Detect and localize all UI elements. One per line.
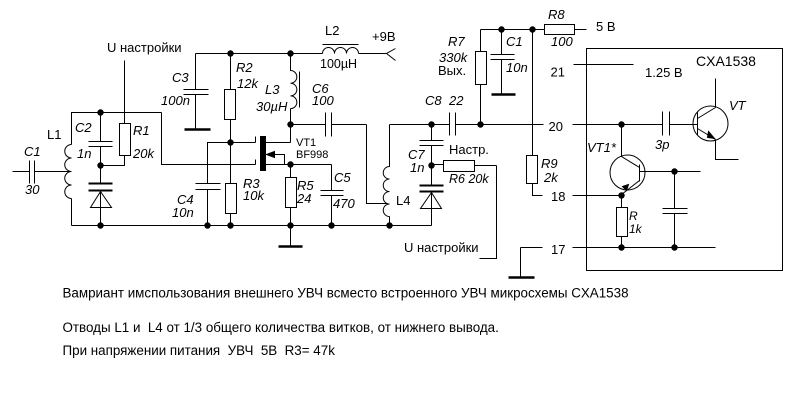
resistor R6 [432, 164, 444, 166]
wire L4 top to C8 [390, 124, 450, 126]
wire node A to VT1 gate2 [162, 113, 256, 165]
svg-text:U настройки: U настройки [107, 40, 182, 55]
VT base bar [697, 113, 699, 136]
svg-text:R7: R7 [448, 34, 465, 49]
capacitor C8 [450, 113, 456, 136]
wire R6 to U tuning lower [480, 166, 497, 259]
svg-text:30: 30 [25, 182, 40, 197]
resistor R1 [120, 124, 131, 156]
VT1* collector wire [640, 171, 701, 173]
IC box CXA1538 [587, 49, 783, 271]
wire L2 to +9V [359, 53, 387, 55]
svg-text:VT1*: VT1* [587, 140, 617, 155]
svg-text:20k: 20k [132, 146, 155, 161]
svg-text:5 В: 5 В [596, 19, 616, 34]
capacitor C5 [321, 165, 344, 226]
resistor R5 [290, 165, 292, 178]
svg-text:30µH: 30µH [256, 99, 288, 114]
svg-text:L4: L4 [396, 193, 410, 208]
varicap VD2 [420, 186, 444, 192]
transistor VT1 gate bars [255, 137, 257, 165]
svg-text:1.25 В: 1.25 В [645, 65, 683, 80]
svg-text:10k: 10k [243, 188, 265, 203]
svg-text:1k: 1k [629, 222, 643, 236]
transistor VT circle [693, 106, 728, 141]
capacitor 3p [663, 112, 670, 136]
capacitor C6 [291, 113, 367, 137]
ground symbol main [290, 226, 292, 247]
svg-text:20: 20 [549, 119, 563, 134]
resistor R9 [527, 156, 538, 184]
svg-text:VT: VT [729, 98, 747, 113]
VT1* base wire [622, 125, 640, 168]
capacitor C2 [89, 113, 113, 166]
svg-text:+9В: +9В [372, 29, 396, 44]
svg-text:1n: 1n [410, 160, 424, 175]
wire C6 to L4 tap [367, 125, 388, 204]
svg-text:3p: 3p [655, 137, 669, 152]
svg-text:VT1: VT1 [296, 137, 316, 149]
svg-text:BF998: BF998 [296, 149, 328, 161]
resistor R internal [621, 196, 623, 208]
svg-text:U настройки: U настройки [404, 240, 479, 255]
svg-text:L1: L1 [47, 127, 61, 142]
ground rail wire [72, 225, 432, 227]
svg-text:L3: L3 [265, 82, 280, 97]
VT emitter wire [698, 129, 716, 140]
svg-text:Вых.: Вых. [438, 63, 466, 78]
svg-text:При напряжении питания УВЧ 5: При напряжении питания УВЧ 5В R3= 47k [63, 343, 336, 358]
svg-text:24: 24 [296, 191, 311, 206]
+9V connector arrow [387, 49, 396, 61]
capacitor C1b [491, 30, 515, 94]
svg-text:C1: C1 [506, 34, 523, 49]
resistor R3 [230, 143, 232, 184]
svg-text:12k: 12k [237, 76, 259, 91]
pin 21 wire [574, 64, 634, 66]
svg-text:22: 22 [448, 93, 464, 108]
capacitor C7 [420, 125, 444, 165]
inductor L2 [323, 48, 359, 54]
resistor R2 [230, 54, 232, 90]
svg-text:C2: C2 [75, 120, 92, 135]
svg-text:18: 18 [551, 189, 565, 204]
ground under C3 [185, 128, 211, 131]
wire L1 bottom to ground rail [71, 199, 73, 226]
inductor L4 [383, 125, 389, 226]
wire R1 bottom to node B [101, 156, 125, 166]
svg-text:470: 470 [333, 196, 355, 211]
svg-text:Отводы L1 и L4 от 1/3 общего: Отводы L1 и L4 от 1/3 общего количества … [63, 320, 499, 335]
svg-text:C1: C1 [24, 144, 41, 159]
wire C1 to L1 tap [35, 171, 72, 173]
svg-text:C8: C8 [425, 93, 442, 108]
capacitor C1 [30, 161, 35, 184]
wire node to R9 [532, 30, 534, 156]
inductor L1 [65, 145, 72, 199]
wire R1 top to U tuning [124, 61, 126, 124]
svg-text:10n: 10n [172, 205, 194, 220]
svg-text:L2: L2 [325, 23, 339, 38]
VT1 drain wire [266, 125, 291, 143]
svg-text:100: 100 [551, 34, 573, 49]
capacitor C3 [184, 54, 209, 129]
VT1 source wire [266, 164, 332, 166]
VT collector wire [698, 79, 716, 119]
svg-text:R2: R2 [236, 60, 253, 75]
svg-text:Вамриант имспользования внешне: Вамриант имспользования внешнего УВЧ всм… [63, 286, 629, 301]
internal capacitor [663, 172, 688, 248]
resistor R8 [545, 25, 575, 35]
svg-text:2k: 2k [543, 170, 559, 185]
wire L1 top to node A [72, 113, 162, 145]
svg-text:R1: R1 [133, 123, 150, 138]
VT1* emitter wire [622, 181, 640, 195]
svg-text:21: 21 [551, 65, 565, 80]
svg-text:R: R [629, 209, 638, 223]
svg-text:CXA1538: CXA1538 [696, 53, 756, 69]
resistor R7 [480, 30, 482, 52]
VT1 substrate arrow [266, 155, 285, 165]
svg-text:1n: 1n [77, 146, 91, 161]
transistor VT1* circle [610, 155, 645, 190]
varicap VD1 [100, 166, 102, 183]
pin 20 wire inside [573, 124, 663, 126]
wire 3p to VT base [670, 124, 698, 126]
svg-text:17: 17 [551, 242, 565, 257]
inductor L3 [291, 54, 297, 125]
wire C8 to pin 20 [456, 124, 544, 126]
svg-text:C5: C5 [334, 170, 351, 185]
svg-text:R9: R9 [541, 156, 558, 171]
svg-text:10n: 10n [506, 60, 528, 75]
svg-text:100: 100 [312, 93, 334, 108]
wire top node to R8 [481, 29, 545, 31]
wire input lead to C1 [13, 171, 30, 173]
svg-text:R6 20k: R6 20k [449, 172, 489, 186]
ground at pin 17 [520, 248, 522, 277]
VT1* base bar [639, 165, 641, 182]
ground under C1b [492, 93, 516, 96]
capacitor C4 [208, 143, 256, 184]
svg-text:Настр.: Настр. [449, 142, 489, 157]
svg-text:C3: C3 [172, 70, 189, 85]
svg-text:100µH: 100µH [320, 57, 357, 71]
svg-text:R8: R8 [548, 7, 565, 22]
supply rail wire [196, 53, 323, 55]
pin 17 wire [521, 247, 716, 249]
transistor VT1 channel [261, 137, 266, 171]
svg-text:100n: 100n [161, 93, 190, 108]
pin 18 wire [573, 195, 622, 197]
